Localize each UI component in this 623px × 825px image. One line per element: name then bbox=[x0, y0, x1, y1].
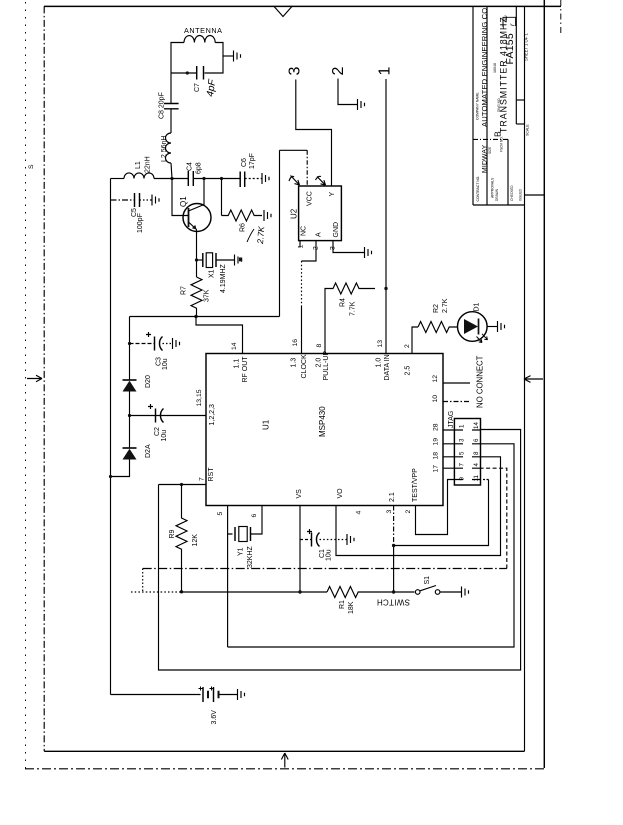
wire VS pin down bbox=[299, 506, 301, 593]
wire R6 drop bbox=[221, 179, 223, 216]
svg-text:X1: X1 bbox=[209, 269, 216, 278]
svg-text:2.7K: 2.7K bbox=[442, 298, 449, 313]
LED D1 emission arrows bbox=[477, 334, 488, 343]
svg-text:16: 16 bbox=[292, 339, 299, 347]
ground (LED) bbox=[498, 321, 505, 332]
svg-text:8: 8 bbox=[473, 451, 480, 455]
wire pin3 to JTAG pin11 bbox=[394, 480, 489, 546]
title block row line A bbox=[486, 6, 488, 205]
svg-text:3: 3 bbox=[459, 438, 466, 442]
node C7 junction dot bbox=[186, 71, 189, 74]
ground (battery) bbox=[238, 689, 245, 700]
capacitor C3 plates bbox=[155, 337, 163, 351]
svg-text:2.0: 2.0 bbox=[316, 358, 323, 368]
svg-text:ANTENNA: ANTENNA bbox=[184, 26, 223, 35]
battery BT1 plates bbox=[203, 687, 214, 702]
JTAG internal pin stubs right bbox=[472, 430, 481, 480]
crystal Y1 plates bbox=[235, 527, 251, 541]
svg-text:8: 8 bbox=[316, 344, 323, 348]
svg-text:SCALE: SCALE bbox=[526, 124, 530, 136]
svg-text:D20: D20 bbox=[145, 375, 152, 388]
svg-text:C7: C7 bbox=[194, 83, 201, 92]
svg-text:13: 13 bbox=[377, 340, 384, 348]
svg-text:U2: U2 bbox=[290, 208, 299, 219]
wire C3 branch bbox=[130, 343, 155, 345]
node R9 bottom junction dot bbox=[180, 590, 183, 593]
svg-text:6: 6 bbox=[251, 514, 258, 518]
svg-text:17pF: 17pF bbox=[249, 153, 256, 169]
svg-text:C6: C6 bbox=[241, 158, 248, 167]
svg-text:Q1: Q1 bbox=[179, 196, 188, 207]
ground (C6) bbox=[262, 173, 269, 184]
title block contract row divider (dash-dot) bbox=[473, 138, 508, 140]
right centering arrow bbox=[524, 376, 543, 383]
svg-text:9: 9 bbox=[459, 477, 466, 481]
LED D1 cathode bar bbox=[478, 319, 480, 335]
svg-text:10u: 10u bbox=[162, 358, 169, 370]
wire U2 VCC pin stub (dash-dot) bbox=[306, 150, 308, 186]
wire C6 to ground (dotted) bbox=[245, 178, 262, 180]
wire C3 to ground (dotted) bbox=[163, 343, 173, 345]
node X1 junction dot bbox=[195, 258, 198, 261]
svg-text:ISSUED: ISSUED bbox=[519, 188, 523, 201]
capacitor C2 plus sign bbox=[148, 404, 153, 409]
svg-text:NC: NC bbox=[301, 226, 308, 236]
wire C5 to ground (dotted) bbox=[140, 199, 153, 201]
svg-text:2.5: 2.5 bbox=[405, 366, 412, 376]
svg-text:R6: R6 bbox=[240, 223, 247, 232]
svg-text:4: 4 bbox=[473, 463, 480, 467]
svg-text:A: A bbox=[316, 232, 323, 237]
crystal Y1 body bbox=[239, 527, 247, 542]
svg-text:2.7K: 2.7K bbox=[255, 226, 266, 245]
svg-text:2: 2 bbox=[404, 344, 411, 348]
bottom centering arrow bbox=[281, 753, 288, 768]
svg-text:12: 12 bbox=[432, 375, 439, 383]
wire C8 to L2 bbox=[170, 109, 172, 133]
JTAG internal pin stubs left bbox=[454, 430, 463, 480]
svg-text:REV: REV bbox=[504, 14, 508, 21]
transistor Q1 emitter with arrow bbox=[189, 222, 197, 230]
left centering arrow bbox=[27, 375, 42, 381]
inductor L2 coil bbox=[166, 133, 172, 163]
title block fscm box line bbox=[516, 123, 524, 125]
svg-text:14: 14 bbox=[231, 342, 238, 350]
transistor Q1 base bar bbox=[188, 208, 190, 227]
border frame bottom bbox=[44, 750, 524, 752]
svg-text:R4: R4 bbox=[340, 298, 347, 307]
svg-text:16048: 16048 bbox=[493, 63, 497, 73]
svg-text:NO CONNECT: NO CONNECT bbox=[476, 355, 485, 408]
capacitor C3 plus sign bbox=[146, 332, 151, 337]
wire node 2 to ground bbox=[338, 79, 357, 105]
wire RF node to C4 bbox=[172, 178, 188, 180]
IC U1 box bbox=[206, 354, 443, 506]
wire D2A to battery rail bbox=[111, 460, 130, 477]
node RF junction dot bbox=[170, 177, 173, 180]
svg-text:GND: GND bbox=[333, 222, 340, 238]
wire C4 to C6 bbox=[193, 178, 240, 180]
svg-text:7: 7 bbox=[459, 463, 466, 467]
svg-text:R1: R1 bbox=[339, 600, 346, 609]
transistor Q1 circle bbox=[183, 204, 211, 232]
node collector junction dot bbox=[202, 177, 205, 180]
svg-text:APPROVALS: APPROVALS bbox=[491, 177, 495, 198]
border frame left (dash-dot) bbox=[43, 6, 45, 751]
svg-text:11: 11 bbox=[473, 475, 480, 482]
svg-text:DRAWN: DRAWN bbox=[495, 188, 499, 201]
svg-text:SWITCH: SWITCH bbox=[377, 598, 410, 607]
handwritten arrow annotation pin 5 bbox=[289, 176, 300, 186]
svg-text:SIZE: SIZE bbox=[488, 147, 492, 154]
svg-text:12K: 12K bbox=[192, 534, 199, 547]
svg-text:10: 10 bbox=[432, 395, 439, 403]
antenna loop right side wire bbox=[205, 43, 224, 74]
JTAG external stubs to U1 bbox=[443, 430, 454, 468]
svg-text:6p8: 6p8 bbox=[196, 162, 203, 174]
switch S1 contacts bbox=[415, 590, 420, 595]
wire battery to ground bbox=[219, 694, 238, 696]
svg-text:4.19MHZ: 4.19MHZ bbox=[220, 263, 227, 293]
inner frame right line bbox=[524, 6, 526, 751]
switch S1 lever bbox=[420, 586, 436, 591]
svg-text:1: 1 bbox=[377, 67, 394, 76]
wire switch to ground bbox=[440, 591, 462, 593]
node switch junction dot bbox=[392, 590, 395, 593]
scale row bottom bbox=[525, 194, 545, 196]
svg-text:5: 5 bbox=[217, 512, 224, 516]
svg-text:7.7K: 7.7K bbox=[350, 301, 357, 316]
wire pin2 to R2 bbox=[412, 327, 418, 354]
wire VCC rail top to U2 bbox=[280, 149, 308, 151]
svg-text:17: 17 bbox=[433, 465, 440, 473]
R6 handwritten squiggle bbox=[247, 229, 254, 242]
title block rev/dwg-no divider bbox=[515, 6, 517, 124]
border frame inner top bbox=[44, 5, 561, 7]
wire X1 to ground bbox=[216, 259, 234, 261]
svg-text:1.1: 1.1 bbox=[234, 359, 241, 369]
capacitor C4 plates bbox=[188, 171, 193, 186]
svg-text:D1: D1 bbox=[474, 302, 481, 311]
svg-text:4: 4 bbox=[356, 511, 363, 515]
LED D1 circle bbox=[458, 312, 488, 342]
wire pin14 RF OUT to R7 node bbox=[196, 317, 243, 354]
wire base from L2 node bbox=[172, 179, 189, 216]
wire RST net down-right big L bbox=[159, 430, 521, 671]
ground (antenna) bbox=[234, 51, 241, 62]
wire VO pin to JTAG bbox=[336, 457, 501, 556]
svg-text:FA155: FA155 bbox=[504, 33, 516, 64]
svg-text:CONTRACT NO.: CONTRACT NO. bbox=[476, 176, 480, 202]
svg-text:C8 20pF: C8 20pF bbox=[159, 92, 166, 119]
svg-text:VS: VS bbox=[296, 489, 303, 499]
resistor R9 zigzag bbox=[176, 485, 187, 592]
svg-text:7: 7 bbox=[199, 477, 206, 481]
node VS junction dot bbox=[298, 590, 301, 593]
wire pin12 no-connect stub bbox=[443, 382, 470, 384]
wire node 1 to pin 13 bbox=[385, 79, 387, 354]
svg-text:2: 2 bbox=[330, 67, 347, 76]
op-amp U2 box bbox=[299, 186, 342, 241]
JTAG connector J1 box bbox=[454, 419, 480, 486]
wire U2 pin A to U1 clock pin16 bbox=[302, 241, 317, 261]
antenna ground stub wire bbox=[223, 55, 233, 57]
svg-text:PULL-UP: PULL-UP bbox=[323, 351, 330, 381]
svg-text:CLOCK: CLOCK bbox=[301, 354, 308, 378]
svg-text:18: 18 bbox=[433, 452, 440, 460]
LED D1 triangle bbox=[464, 319, 478, 334]
resistor R4 zigzag bbox=[325, 283, 375, 354]
wire ground rail to JTAG pin8 (dashed) bbox=[481, 468, 507, 568]
svg-text:Y: Y bbox=[329, 192, 336, 197]
svg-text:DATA IN: DATA IN bbox=[384, 354, 391, 380]
svg-text:CHECKED: CHECKED bbox=[510, 185, 514, 201]
title block left edge bbox=[472, 6, 474, 205]
handwritten arrow annotation pin 4 bbox=[316, 176, 326, 185]
wire supply line to U1 bbox=[130, 415, 207, 417]
ground (U2) bbox=[365, 247, 372, 258]
title block sheet box divider bbox=[516, 99, 524, 101]
antenna loop bottom-left wire bbox=[171, 72, 197, 74]
node R4 junction dot bbox=[384, 287, 387, 290]
svg-text:2.1: 2.1 bbox=[389, 492, 396, 502]
capacitor C7 plates bbox=[197, 66, 204, 80]
top centering chevron mark bbox=[274, 6, 292, 16]
resistor R7 zigzag bbox=[191, 277, 202, 316]
wire C5 branch (dash) bbox=[111, 199, 135, 201]
outer trim border left (dotted) bbox=[25, 2, 27, 769]
antenna loop left side wire bbox=[171, 43, 184, 74]
svg-text:C4: C4 bbox=[187, 162, 194, 171]
capacitor C6 plates bbox=[240, 172, 245, 188]
wire left rail vertical bbox=[110, 179, 112, 695]
svg-text:L1: L1 bbox=[135, 161, 142, 169]
svg-text:RST: RST bbox=[208, 467, 215, 482]
wire VCC rail to D20 bbox=[129, 317, 131, 381]
wire C1 branch (dash) bbox=[300, 539, 312, 541]
svg-text:100pF: 100pF bbox=[137, 213, 144, 233]
svg-text:28: 28 bbox=[433, 423, 440, 431]
node R6 junction dot bbox=[220, 177, 223, 180]
node R7 bottom junction dot bbox=[194, 315, 197, 318]
ground (R6) bbox=[264, 210, 271, 221]
rev letter bracket bbox=[503, 17, 516, 27]
wire TEST/VPP to JTAG pin9 bbox=[416, 480, 455, 535]
diode D2A cathode bar bbox=[123, 447, 137, 449]
ground (node 2) bbox=[358, 99, 365, 110]
wire VCC rail horizontal bbox=[130, 316, 280, 318]
node C3 junction dot bbox=[128, 342, 131, 345]
wire pin3 2.1 down (dash-dot then solid) bbox=[393, 506, 395, 546]
wire LED to ground bbox=[487, 326, 497, 328]
svg-text:TEST/VPP: TEST/VPP bbox=[412, 468, 419, 502]
node R9 top junction dot bbox=[180, 483, 183, 486]
ground (switch) bbox=[462, 587, 469, 598]
ground (X1) bbox=[235, 255, 242, 266]
svg-text:L2 56nH: L2 56nH bbox=[161, 136, 168, 162]
capacitor C2 plates bbox=[156, 409, 164, 423]
wire L2 to RF node bbox=[171, 163, 172, 179]
wire left rail to L1 bbox=[111, 178, 125, 180]
svg-text:S1: S1 bbox=[424, 576, 431, 585]
svg-text:37K: 37K bbox=[204, 289, 211, 302]
svg-text:R9: R9 bbox=[169, 529, 176, 538]
ground (C1) bbox=[347, 534, 354, 545]
node supply junction dot bbox=[128, 414, 131, 417]
svg-text:MSP430: MSP430 bbox=[318, 406, 327, 437]
title block bottom edge bbox=[473, 204, 525, 206]
svg-text:VO: VO bbox=[337, 488, 344, 499]
svg-text:1.0: 1.0 bbox=[376, 358, 383, 368]
resistor R6 zigzag bbox=[222, 210, 263, 221]
inductor L1 coil bbox=[124, 173, 154, 179]
diode D20 cathode bar bbox=[123, 379, 137, 381]
svg-text:D2A: D2A bbox=[145, 444, 152, 458]
node battery rail junction dot bbox=[109, 475, 112, 478]
resistor R1 zigzag bbox=[327, 587, 415, 598]
svg-text:13,15: 13,15 bbox=[196, 389, 203, 406]
svg-text:1: 1 bbox=[298, 245, 305, 249]
node pin3 junction dot bbox=[392, 544, 395, 547]
svg-text:14: 14 bbox=[473, 422, 480, 429]
wire D20 to D2A bbox=[129, 392, 131, 449]
capacitor C1 plates bbox=[312, 533, 320, 547]
wire ground rail left drop (dotted) bbox=[142, 569, 144, 593]
svg-text:RF OUT: RF OUT bbox=[242, 356, 249, 383]
svg-text:FSCM NO.: FSCM NO. bbox=[500, 136, 504, 152]
wire VCC rail vertical riser bbox=[279, 150, 281, 316]
wire antenna to C8 bbox=[170, 73, 172, 104]
wire pin5 to crystal Y1 bbox=[228, 506, 233, 648]
svg-text:10u: 10u bbox=[326, 549, 333, 561]
svg-text:U1: U1 bbox=[262, 419, 271, 430]
svg-text:5: 5 bbox=[459, 451, 466, 455]
wire L1 to RF node bbox=[154, 178, 172, 180]
svg-text:AUTOMATED ENGINEERING CO.: AUTOMATED ENGINEERING CO. bbox=[480, 5, 489, 127]
antenna loop coil bbox=[184, 36, 215, 43]
outer trim border bottom (dash-dot) bbox=[25, 768, 545, 770]
ground (C5) bbox=[152, 195, 159, 206]
wire pin5 line to JTAG pin6 bbox=[228, 444, 514, 647]
wire node 3 bbox=[296, 80, 332, 187]
wire Y1 to pin6 bbox=[251, 506, 263, 535]
svg-text:1.3: 1.3 bbox=[291, 358, 298, 368]
diode D2A triangle bbox=[123, 449, 137, 460]
svg-text:3.6V: 3.6V bbox=[211, 710, 218, 725]
top-right trim dash bbox=[560, 0, 562, 33]
svg-text:C2: C2 bbox=[154, 427, 161, 436]
svg-text:3: 3 bbox=[287, 67, 304, 76]
capacitor C1 plus sign bbox=[307, 529, 312, 534]
crystal X1 plates bbox=[203, 253, 216, 267]
svg-text:2: 2 bbox=[405, 510, 412, 514]
title block divider (checked/issued column) bbox=[507, 139, 509, 205]
svg-text:1,2,2,3: 1,2,2,3 bbox=[209, 404, 216, 426]
wire emitter to X1 bbox=[197, 259, 203, 261]
svg-text:Y1: Y1 bbox=[238, 547, 245, 556]
resistor R2 zigzag bbox=[418, 322, 458, 333]
svg-text:18K: 18K bbox=[348, 601, 355, 614]
svg-text:R2: R2 bbox=[433, 304, 440, 313]
wire battery rail bottom bbox=[111, 694, 201, 696]
ground (C3) bbox=[173, 338, 180, 349]
U2 pin 1 stub bbox=[299, 241, 301, 248]
svg-text:SHEET 1 OF 1: SHEET 1 OF 1 bbox=[524, 32, 529, 61]
svg-text:3: 3 bbox=[386, 510, 393, 514]
wire U2 pin GND to ground bbox=[333, 241, 364, 253]
wire pin10 no-connect stub (dash-dot) bbox=[443, 401, 470, 403]
capacitor C5 plates bbox=[135, 193, 140, 207]
svg-text:10u: 10u bbox=[161, 430, 168, 442]
wire ground rail (long dash-dot) bbox=[143, 568, 507, 570]
svg-text:22nH: 22nH bbox=[145, 156, 152, 173]
wire C1 to ground (dotted) bbox=[320, 539, 347, 541]
wire emitter down bbox=[196, 230, 198, 278]
svg-text:32KHZ: 32KHZ bbox=[247, 545, 254, 568]
border frame right bbox=[543, 0, 545, 768]
diode D20 triangle bbox=[123, 381, 137, 392]
svg-text:1: 1 bbox=[459, 424, 466, 428]
svg-text:R7: R7 bbox=[181, 286, 188, 295]
capacitor C8 plates bbox=[164, 104, 179, 109]
svg-text:S: S bbox=[28, 164, 35, 169]
wire RST pin bbox=[159, 484, 207, 486]
transistor Q1 collector bbox=[189, 179, 205, 212]
crystal X1 body bbox=[206, 253, 212, 268]
svg-text:19: 19 bbox=[433, 438, 440, 446]
svg-text:6: 6 bbox=[473, 438, 480, 442]
wire VS/R1 line (dotted left part) bbox=[131, 591, 182, 593]
svg-text:VCC: VCC bbox=[307, 191, 314, 206]
